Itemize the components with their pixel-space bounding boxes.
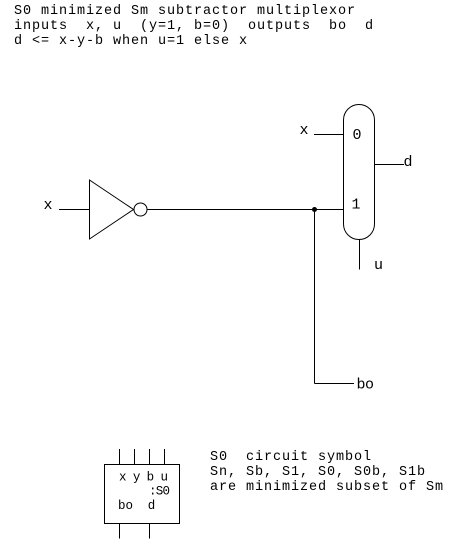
wire x to inverter — [59, 209, 90, 211]
svg-text:inputs x, u (y=1, b=0) outp: inputs x, u (y=1, b=0) outputs bo d — [14, 19, 373, 34]
svg-text:u: u — [374, 257, 383, 274]
wire mux select u — [359, 240, 361, 270]
svg-text:d: d — [148, 499, 156, 513]
svg-text::S0: :S0 — [149, 484, 170, 498]
wire mux output d — [375, 164, 405, 166]
svg-text:x: x — [300, 122, 309, 139]
inverter U1 output bubble — [134, 203, 147, 216]
wire x to mux input 0 — [314, 134, 344, 136]
svg-text:0: 0 — [353, 127, 362, 144]
wire inverter output to mux input 1 — [147, 209, 344, 211]
svg-text:d <= x-y-b when u=1 else x: d <= x-y-b when u=1 else x — [14, 34, 247, 49]
svg-text:are minimized subset of Sm: are minimized subset of Sm — [210, 480, 443, 495]
pin stub input x — [119, 449, 121, 465]
svg-text:bo: bo — [357, 377, 375, 394]
svg-text:Sn, Sb, S1, S0, S0b, S1b: Sn, Sb, S1, S0, S0b, S1b — [210, 465, 425, 480]
pin stub output bo — [119, 524, 121, 539]
svg-text:bo: bo — [118, 499, 133, 513]
multiplexor U2 body — [344, 105, 375, 240]
pin stub input u — [164, 449, 166, 465]
svg-text:S0 minimized Sm subtractor mul: S0 minimized Sm subtractor multiplexor — [14, 4, 355, 19]
svg-text:1: 1 — [352, 197, 361, 214]
svg-text:d: d — [404, 154, 413, 171]
pin stub input b — [149, 449, 151, 465]
svg-text:x y b u: x y b u — [119, 471, 168, 485]
pin stub output d — [149, 524, 151, 539]
junction dot — [312, 207, 317, 212]
svg-text:S0 circuit symbol: S0 circuit symbol — [210, 450, 371, 465]
pin stub input y — [134, 449, 136, 465]
S0 symbol box — [105, 465, 180, 524]
wire horizontal to bo label — [315, 383, 355, 385]
wire junction down to bo — [314, 210, 316, 384]
inverter U1 triangle — [90, 180, 134, 239]
svg-text:x: x — [44, 197, 53, 214]
